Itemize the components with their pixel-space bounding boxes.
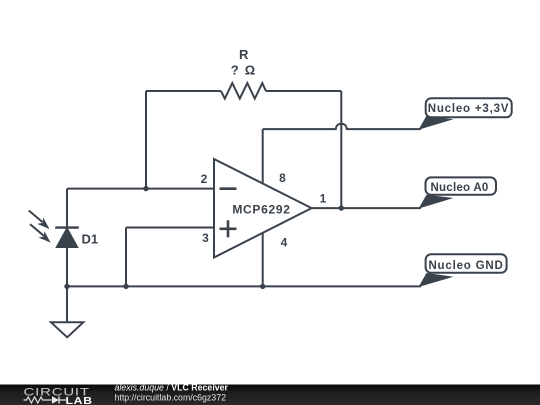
junction node diode/gnd bbox=[64, 284, 69, 289]
wire pin3 vertical bbox=[125, 228, 127, 287]
wire +3.3V net with hop over feedback bbox=[263, 124, 421, 130]
svg-text:2: 2 bbox=[201, 172, 208, 186]
wire feedback left vertical bbox=[145, 91, 147, 189]
svg-text:Nucleo A0: Nucleo A0 bbox=[430, 182, 488, 194]
op-amp plus input sign bbox=[220, 228, 237, 231]
svg-text:8: 8 bbox=[279, 171, 286, 185]
wire diode anode to gnd net bbox=[66, 247, 68, 286]
wire pin3 horizontal bbox=[126, 227, 214, 229]
svg-text:Nucleo GND: Nucleo GND bbox=[428, 260, 503, 272]
logo diode bbox=[52, 396, 59, 403]
wire pin8 vertical bbox=[262, 129, 264, 183]
ground symbol bbox=[51, 322, 83, 337]
footer bar bbox=[0, 383, 540, 405]
junction node pin2/feedback bbox=[143, 186, 148, 191]
logo resistor zigzag bbox=[24, 397, 52, 403]
wire output net bbox=[312, 207, 421, 209]
svg-text:R: R bbox=[239, 47, 249, 62]
wire gnd net horizontal bbox=[67, 285, 421, 287]
op-amp U1 MCP6292 bbox=[201, 159, 327, 258]
resistor R1 zigzag bbox=[221, 83, 266, 99]
flag Nucleo GND bbox=[419, 254, 507, 287]
flag Nucleo A0 bbox=[419, 177, 497, 208]
svg-text:D1: D1 bbox=[82, 232, 99, 247]
svg-text:3: 3 bbox=[202, 231, 209, 245]
svg-text:4: 4 bbox=[281, 236, 288, 250]
svg-text:alexis.duque / VLC Receiver: alexis.duque / VLC Receiver bbox=[115, 383, 229, 393]
svg-text:MCP6292: MCP6292 bbox=[232, 203, 290, 217]
light arrow 1 bbox=[29, 211, 50, 230]
photodiode D1 bbox=[29, 211, 98, 248]
wire diode cathode vertical bbox=[66, 189, 68, 228]
anode triangle bbox=[57, 228, 78, 247]
wire feedback right vertical bbox=[340, 91, 342, 208]
wire ground stem bbox=[66, 286, 68, 322]
wire pin4 vertical bbox=[262, 233, 264, 287]
svg-text:1: 1 bbox=[320, 192, 327, 206]
svg-text:Nucleo +3,3V: Nucleo +3,3V bbox=[428, 103, 510, 115]
svg-text:? Ω: ? Ω bbox=[231, 63, 257, 78]
wire pin2 net horizontal bbox=[67, 188, 214, 190]
svg-text:LAB: LAB bbox=[66, 396, 93, 405]
cathode bar bbox=[55, 226, 79, 228]
op-amp minus input sign bbox=[220, 187, 237, 190]
svg-text:http://circuitlab.com/c6gz372: http://circuitlab.com/c6gz372 bbox=[115, 393, 227, 403]
junction node pin4/gnd bbox=[260, 284, 265, 289]
wire top left to resistor bbox=[146, 90, 221, 92]
wire resistor to right vertical bbox=[266, 90, 341, 92]
junction node output bbox=[339, 205, 344, 210]
flag Nucleo +3,3V bbox=[419, 98, 512, 129]
light arrow 2 bbox=[30, 224, 51, 243]
junction node pin3/gnd bbox=[123, 284, 128, 289]
